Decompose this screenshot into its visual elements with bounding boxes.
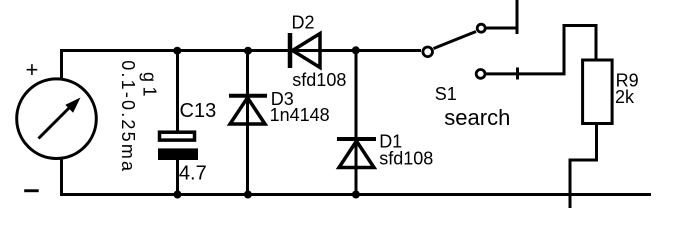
wire from lower throw contact to R9 top <box>486 26 596 74</box>
svg-text:sfd108: sfd108 <box>379 148 433 168</box>
svg-text:4.7: 4.7 <box>179 162 207 184</box>
switch S1 common contact <box>423 47 433 57</box>
node junction dot top of C13 branch <box>173 47 181 55</box>
svg-text:+: + <box>26 57 39 82</box>
svg-text:2k: 2k <box>615 87 635 107</box>
meter g1 <box>17 79 97 159</box>
switch S1 upper throw contact <box>477 24 485 32</box>
wire meter bottom lead <box>60 158 63 196</box>
node junction dot bottom of D1 branch <box>352 191 360 199</box>
node junction dot bottom of C13 branch <box>174 191 182 199</box>
diode D3 <box>229 96 267 124</box>
wire D3 branch <box>246 51 249 197</box>
node junction dot top of D3 branch <box>244 47 252 55</box>
switch S1 lower throw contact <box>476 70 485 79</box>
node junction dot top of D1 branch <box>352 46 360 54</box>
wire from upper throw contact to top edge <box>487 0 518 34</box>
capacitor C13 <box>158 132 198 160</box>
switch S1 lever <box>434 32 477 49</box>
wire meter top lead <box>60 49 63 79</box>
svg-text:search: search <box>444 105 510 130</box>
svg-text:0.1-0.25ma: 0.1-0.25ma <box>118 60 138 173</box>
wire R9 bottom lead to bottom rail <box>570 124 597 209</box>
svg-text:sfd108: sfd108 <box>292 70 346 90</box>
label - (meter negative terminal) <box>24 189 39 192</box>
wire D1 branch <box>355 51 358 197</box>
wire top horizontal rail <box>60 49 421 52</box>
wire capacitor branch upper <box>176 51 179 132</box>
diode D2 <box>290 33 320 68</box>
svg-text:S1: S1 <box>435 84 457 104</box>
node junction dot bottom of D3 branch <box>244 191 252 199</box>
resistor R9 <box>583 60 613 124</box>
wire stub tick on lower throw wire <box>516 68 519 80</box>
wire bottom horizontal rail <box>60 193 651 196</box>
wire capacitor branch lower <box>176 160 179 196</box>
diode D1 <box>337 139 376 168</box>
svg-text:1n4148: 1n4148 <box>270 105 330 125</box>
svg-text:g1: g1 <box>140 72 160 101</box>
svg-text:C13: C13 <box>180 100 217 122</box>
svg-text:D2: D2 <box>292 12 315 32</box>
